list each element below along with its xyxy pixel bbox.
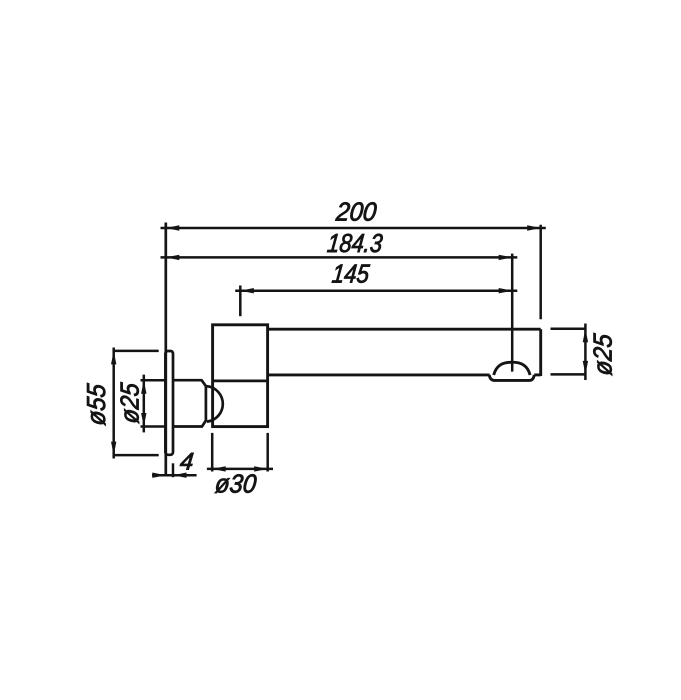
spout tube top edge <box>268 328 541 331</box>
dim D25 right extension lines <box>551 327 587 330</box>
svg-text:145: 145 <box>331 259 372 289</box>
dim D25 left extension lines <box>141 379 166 382</box>
spout tube bottom edge (right of outlet) <box>534 373 540 376</box>
svg-text:ø25: ø25 <box>115 381 145 425</box>
extension line body axis <box>239 286 242 317</box>
svg-text:200: 200 <box>334 197 379 227</box>
dim D55 extension lines <box>113 350 159 353</box>
dim D25 right line <box>584 324 587 381</box>
arrows dim 4 <box>152 473 166 478</box>
arrows dim D30 <box>212 466 226 471</box>
extension line outlet center <box>511 254 514 372</box>
wall face / extension line <box>164 223 167 477</box>
arrows dim D55 <box>111 351 116 365</box>
dim 145 line <box>235 289 517 292</box>
vertical body cylinder D30 <box>213 325 268 427</box>
arrows dim D25 right <box>583 329 588 343</box>
svg-text:ø30: ø30 <box>214 469 259 499</box>
outlet tray <box>489 375 534 381</box>
spout tip edge <box>539 329 542 376</box>
arrows dim 200 <box>166 225 180 230</box>
dim 184.3 line <box>161 256 518 259</box>
arrows dim D25 left <box>141 380 146 394</box>
svg-text:ø25: ø25 <box>588 332 618 377</box>
wall flange plate (4mm thick, D55) <box>165 351 173 455</box>
dim 4 line <box>152 474 197 477</box>
arrows dim 145 <box>240 288 254 293</box>
dim D25 left line <box>143 375 146 433</box>
svg-text:184.3: 184.3 <box>326 228 385 258</box>
extension line spout tip <box>539 225 542 319</box>
dim D55 line <box>112 348 115 459</box>
body joint line <box>213 380 268 383</box>
dim D30 extension lines <box>211 433 214 472</box>
ball joint arc <box>207 386 223 421</box>
inlet pipe nipple D25 <box>173 380 206 426</box>
dim 200 line <box>161 227 546 230</box>
outlet dome <box>494 362 530 375</box>
svg-text:4: 4 <box>179 449 195 476</box>
dim D30 line <box>207 468 273 471</box>
dim 4 extension line <box>172 463 175 477</box>
spout tube bottom edge (left of outlet) <box>268 373 490 376</box>
arrows dim 184.3 <box>166 255 180 260</box>
svg-text:ø55: ø55 <box>81 382 111 427</box>
